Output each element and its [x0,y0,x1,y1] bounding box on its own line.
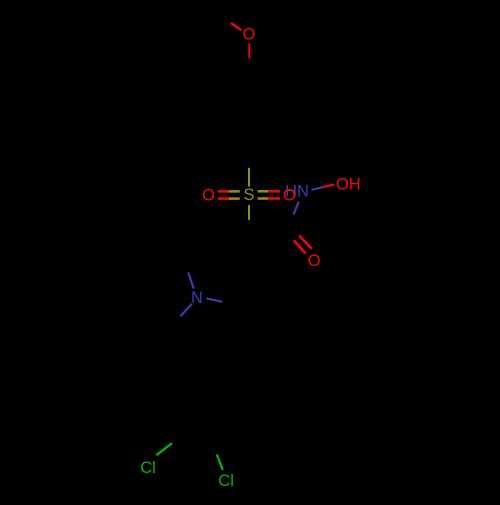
wire: bond O1-ring C (O half, red) [248,43,250,58]
wire: bond N2-O4 (red O half) [323,184,334,187]
svg-text:N: N [191,289,203,307]
wire: bond N2-O4 (blue N half) [312,187,324,190]
svg-text:O: O [242,26,255,44]
wire: bond N1-C6 piperidine (blue N half) [206,298,222,301]
svg-text:OH: OH [336,175,361,193]
wire: bond S-C4 (S half, yellow) [248,205,250,220]
svg-text:Cl: Cl [140,459,156,477]
invisible carbon skeleton (black on black) [150,83,276,439]
wire: bond N1-CH2 benzyl (blue N half) [180,304,192,316]
wire: bond ring C - S (S half, yellow) [248,168,250,187]
wire: S=O left double bond upper line (red half then yellow half) [218,190,229,193]
svg-text:Cl: Cl [218,472,234,490]
wire: bond CH3-O1 (O half, red) [231,23,241,30]
svg-text:O: O [202,187,215,205]
svg-text:O: O [308,252,321,270]
svg-text:S: S [243,186,254,204]
wire: bond C4'-Cl2 (green Cl half) [217,454,223,470]
wire: bond N1-C2 piperidine (blue N half) [188,272,194,288]
wire: C=O carbonyl double bond line 1 (red O half) [299,236,312,249]
wire: bond N2-C(=O) (blue N half) [294,202,299,215]
wire: S=O right double bond lower line [258,197,269,200]
wire: bond C3'-Cl1 (green Cl half) [156,443,172,455]
svg-text:O: O [283,187,296,205]
wire: S=O left double bond lower line [218,197,229,200]
wire: S=O right double bond upper line (yellow half then red half) [258,190,269,193]
wire: C=O carbonyl double bond line 2 (red O half) [294,240,306,253]
